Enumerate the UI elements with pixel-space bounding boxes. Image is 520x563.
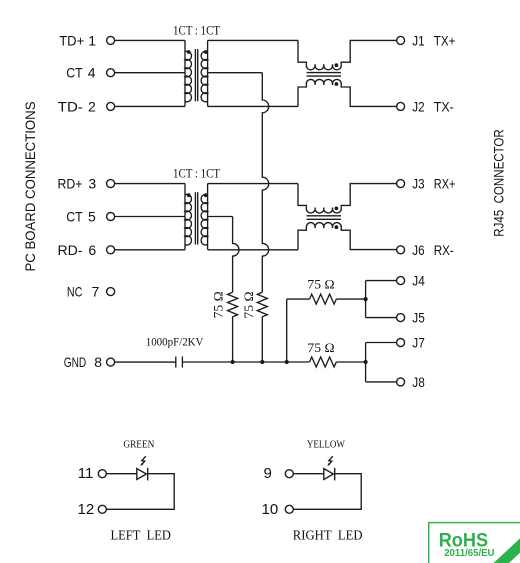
pin circle 1 (TD+) (107, 36, 115, 44)
pin label TD- 2 (58, 98, 96, 114)
transformer T2 (RX) primary winding (185, 184, 191, 250)
pin circle 5 (CT) (107, 213, 115, 221)
transformer T1 (TX) primary winding (185, 40, 191, 106)
pin label 11 (78, 465, 94, 482)
wire T2 secondary bottom to L2 (208, 249, 298, 251)
wire GND pin8 to C1 (115, 361, 176, 363)
LED D1 cathode bar (147, 468, 149, 481)
pin label RD+ 3 (58, 176, 97, 192)
transformer T2 (RX) ratio label 1CT : 1CT (173, 167, 220, 181)
pin label J6 RX- (412, 242, 454, 258)
pin circle J8 (397, 378, 405, 386)
svg-text:J1: J1 (412, 32, 424, 48)
pin label J3 RX+ (412, 176, 455, 192)
svg-text:6: 6 (88, 242, 96, 258)
pin label CT 4 (66, 65, 96, 81)
pin circle 9 (285, 470, 293, 478)
resistor R2 75ohm (TX ct) zigzag (257, 292, 267, 316)
pin circle J7 (397, 339, 405, 347)
transformer T1 (TX) primary polarity dot (187, 50, 191, 54)
svg-text:LEFT LED: LEFT LED (110, 527, 171, 542)
pin label GND 8 (64, 354, 102, 370)
svg-text:CT: CT (66, 209, 83, 225)
svg-text:2: 2 (88, 98, 96, 114)
LED D1 triangle (137, 469, 147, 480)
pin label J5 (412, 310, 425, 326)
wire pin11 to LED anode (106, 473, 136, 475)
ground bus wire (182, 361, 309, 363)
LED color label YELLOW (307, 440, 345, 451)
svg-text:J5: J5 (412, 310, 425, 326)
transformer T1 (TX) secondary polarity dot (204, 50, 208, 54)
label RIGHT LED (293, 527, 363, 542)
capacitor C1 value label 1000pF/2KV (146, 335, 204, 349)
choke L2 (RX) top polarity dot (335, 207, 339, 211)
junction dot bus/R2 (260, 360, 264, 364)
transformer T1 (TX) core (195, 49, 197, 101)
wire T1 secondary center tap (208, 72, 263, 74)
svg-text:1: 1 (88, 32, 96, 48)
LED D2 cathode bar (334, 468, 336, 481)
wire T2 secondary top to L2 (208, 183, 298, 185)
choke L1 (TX) bottom winding (298, 79, 397, 106)
capacitor C1 1000pF/2KV plates (176, 357, 183, 368)
choke L1 (TX) bottom polarity dot (335, 82, 339, 86)
RoHS logo box (429, 523, 520, 563)
pin label J1 TX+ (412, 32, 455, 48)
pin circle 2 (TD-) (107, 102, 115, 110)
pin label 9 (264, 465, 272, 482)
svg-text:J6: J6 (412, 242, 424, 258)
svg-text:NC: NC (67, 284, 83, 300)
resistor R4 75ohm value label (307, 340, 334, 355)
LED D1 emission arrow (140, 456, 145, 466)
LED color label GREEN (123, 440, 154, 451)
svg-text:8: 8 (94, 354, 102, 370)
svg-text:YELLOW: YELLOW (307, 440, 345, 451)
vertical label RJ45 CONNECTOR (490, 129, 506, 237)
RoHS logo checkmark (497, 540, 520, 563)
svg-text:11: 11 (78, 465, 94, 482)
resistor R1 75ohm (RX ct) zigzag (228, 292, 238, 316)
pin label CT 5 (66, 209, 96, 225)
svg-text:75 Ω: 75 Ω (210, 291, 225, 318)
svg-text:GND: GND (64, 354, 86, 370)
LED D2 triangle (324, 469, 334, 480)
wire CT pin4 to T1 primary center tap (115, 72, 185, 74)
svg-text:CT: CT (66, 65, 83, 81)
pin circle J2 (397, 102, 405, 110)
junction dot bus/R1 (231, 360, 235, 364)
transformer T1 (TX) ratio label 1CT : 1CT (173, 23, 220, 37)
pin circle J3 (397, 180, 405, 188)
wire RD- pin6 to T2 primary bottom (115, 249, 185, 251)
resistor R4 75ohm zigzag (310, 357, 337, 367)
pin circle 3 (RD+) (107, 180, 115, 188)
wire LED cathode to pin10 (293, 474, 361, 510)
svg-text:PC BOARD CONNECTIONS: PC BOARD CONNECTIONS (22, 102, 38, 272)
svg-text:7: 7 (92, 284, 100, 300)
pin circle J4 (397, 277, 405, 285)
svg-text:75 Ω: 75 Ω (307, 276, 334, 291)
pin circle J1 (397, 36, 405, 44)
svg-text:4: 4 (88, 65, 96, 81)
svg-text:RJ45 CONNECTOR: RJ45 CONNECTOR (490, 129, 506, 237)
wire RD+ pin3 to T2 primary top (115, 183, 185, 185)
pin circle J5 (397, 314, 405, 322)
transformer T2 (RX) secondary winding (201, 184, 207, 250)
svg-text:75 Ω: 75 Ω (241, 291, 256, 318)
choke L2 (RX) core (307, 216, 341, 220)
svg-text:J2: J2 (412, 98, 424, 114)
svg-text:GREEN: GREEN (123, 440, 154, 451)
choke L1 (TX) top polarity dot (335, 63, 339, 67)
pin circle 4 (CT) (107, 69, 115, 77)
net T1 center tap vertical (hops over 3 wires) (262, 73, 268, 293)
svg-text:TX+: TX+ (434, 32, 456, 48)
wire R4 right lead (336, 361, 365, 363)
choke L2 (RX) bottom polarity dot (335, 225, 339, 229)
svg-text:J4: J4 (412, 273, 425, 289)
junction dot node B (364, 360, 368, 364)
junction dot bus/R3-net (285, 360, 289, 364)
transformer T2 (RX) primary polarity dot (187, 193, 191, 197)
resistor R1 value label 75 Ω rotated (210, 291, 225, 318)
choke L2 (RX) top winding (298, 184, 397, 213)
pin label J7 (412, 335, 425, 351)
wire R1 bottom to ground bus (232, 317, 234, 362)
svg-text:RX-: RX- (434, 242, 454, 258)
LED D2 emission arrow (327, 456, 332, 466)
pin circle 12 (98, 505, 106, 513)
pin circle 11 (98, 470, 106, 478)
pin label 10 (262, 501, 279, 518)
svg-text:9: 9 (264, 465, 272, 482)
vertical label PC BOARD CONNECTIONS (22, 102, 38, 272)
svg-text:1000pF/2KV: 1000pF/2KV (146, 335, 204, 349)
svg-text:TX-: TX- (434, 98, 454, 114)
net T2 center tap vertical (hop over 1 wire) (233, 217, 239, 293)
node B split to J7/J8 (366, 343, 397, 382)
wire R3 left lead (287, 298, 310, 300)
svg-text:3: 3 (88, 176, 96, 192)
wire R2 bottom to ground bus (261, 317, 263, 362)
svg-text:TD-: TD- (58, 98, 83, 114)
svg-text:1CT : 1CT: 1CT : 1CT (173, 23, 220, 37)
wire R3 right lead (336, 298, 365, 300)
resistor R3 75ohm zigzag (310, 294, 337, 304)
pin circle 10 (285, 505, 293, 513)
pin label TD+ 1 (59, 32, 96, 48)
svg-text:75 Ω: 75 Ω (307, 340, 334, 355)
svg-text:RIGHT LED: RIGHT LED (293, 527, 363, 542)
choke L2 (RX) bottom winding (298, 223, 397, 250)
svg-text:10: 10 (262, 501, 279, 518)
choke L1 (TX) core (307, 73, 341, 77)
svg-text:5: 5 (88, 209, 96, 225)
resistor R3 75ohm value label (307, 276, 334, 291)
svg-text:1CT : 1CT: 1CT : 1CT (173, 167, 220, 181)
svg-text:RX+: RX+ (434, 176, 456, 192)
resistor R2 value label 75 Ω rotated (241, 291, 256, 318)
pin label J8 (412, 374, 425, 390)
wire TD- pin2 to T1 primary bottom (115, 105, 185, 107)
svg-text:J8: J8 (412, 374, 425, 390)
wire LED cathode to pin12 (106, 474, 174, 510)
svg-text:12: 12 (78, 501, 95, 518)
junction dot node A (364, 297, 368, 301)
wire T1 secondary bottom to L1 (208, 105, 298, 107)
pin label RD- 6 (58, 242, 97, 258)
transformer T1 (TX) secondary winding (201, 40, 207, 106)
pin label NC 7 (67, 284, 100, 300)
pin label J4 (412, 273, 425, 289)
pin circle 6 (RD-) (107, 246, 115, 254)
pin circle 8 (GND) (107, 358, 115, 366)
svg-text:J7: J7 (412, 335, 425, 351)
wire T2 secondary center tap (208, 216, 233, 218)
label LEFT LED (110, 527, 171, 542)
svg-text:2011/65/EU: 2011/65/EU (444, 548, 494, 559)
pin label 12 (78, 501, 95, 518)
transformer T2 (RX) secondary polarity dot (204, 193, 208, 197)
pin circle J6 (397, 246, 405, 254)
wire T1 secondary top to L1 (208, 39, 298, 41)
RoHS logo text (439, 529, 488, 551)
RoHS logo directive 2011/65/EU (444, 548, 494, 559)
pin circle 7 (NC) (107, 288, 115, 296)
svg-text:J3: J3 (412, 176, 424, 192)
net R3 left vertical to ground bus (286, 299, 288, 362)
choke L1 (TX) top winding (298, 40, 397, 69)
svg-text:RD+: RD+ (58, 176, 83, 192)
node A split to J4/J5 (366, 281, 397, 318)
transformer T2 (RX) core (195, 192, 197, 244)
wire TD+ pin1 to T1 primary top (115, 39, 185, 41)
svg-text:TD+: TD+ (59, 32, 84, 48)
wire CT pin5 to T2 primary center tap (115, 216, 185, 218)
wire pin9 to LED anode (293, 473, 323, 475)
svg-text:RD-: RD- (58, 242, 83, 258)
pin label J2 TX- (412, 98, 454, 114)
